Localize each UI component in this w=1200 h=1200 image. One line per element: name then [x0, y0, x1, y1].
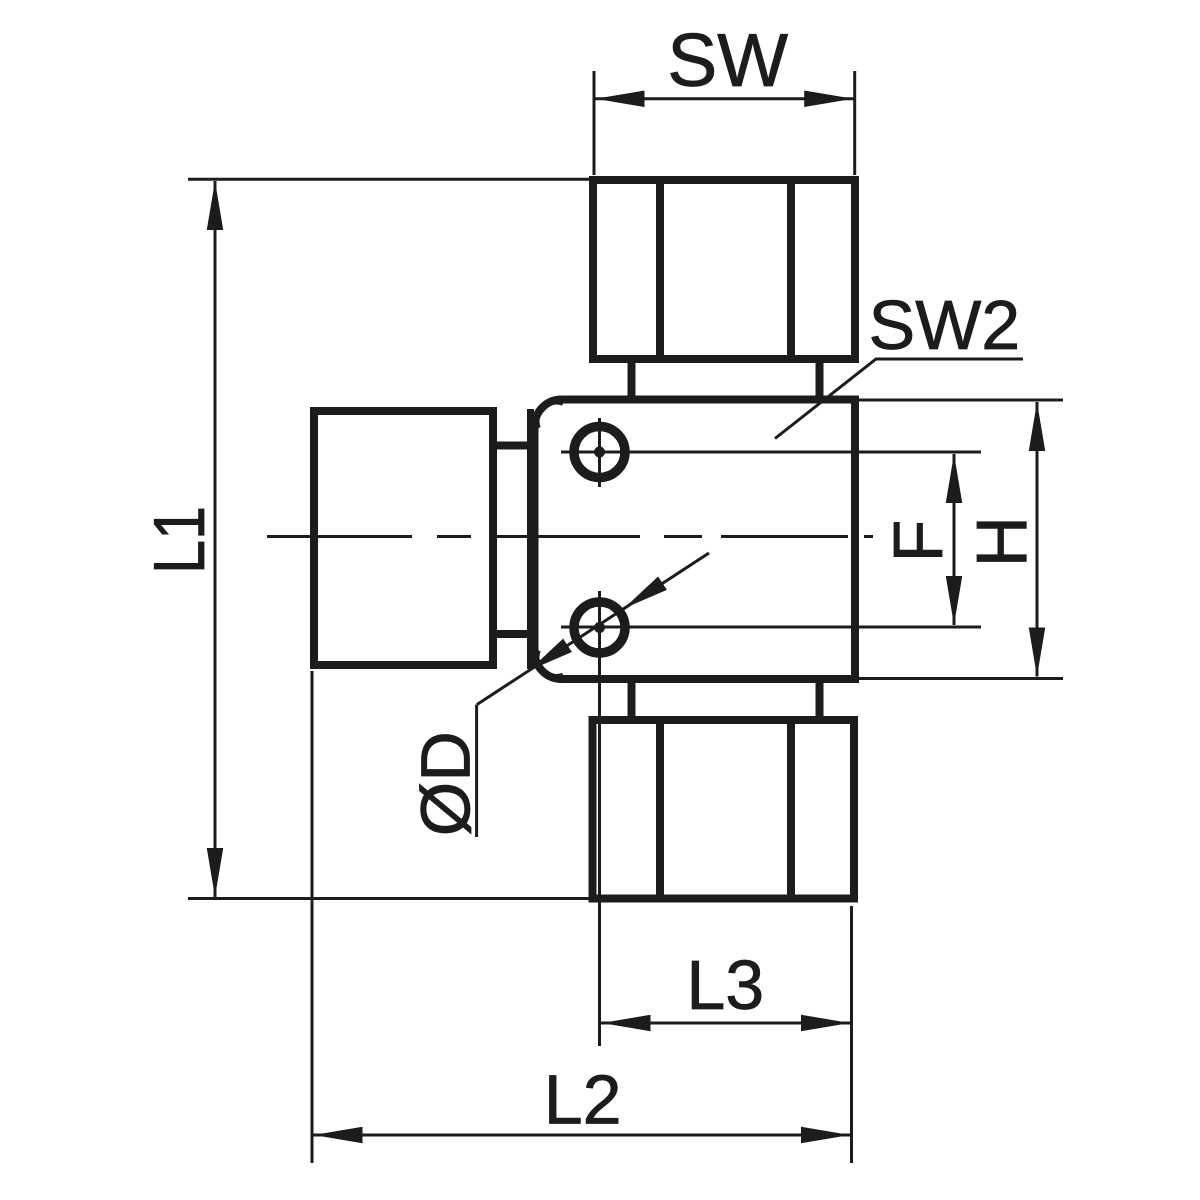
svg-text:SW2: SW2 — [869, 286, 1021, 364]
bottom neck left wire — [628, 679, 636, 720]
F extension line top / top circle crosshair — [561, 451, 981, 454]
svg-text:ØD: ØD — [407, 731, 485, 836]
F arrow bottom — [946, 576, 963, 625]
L2 arrow left — [314, 1127, 363, 1144]
hole circle bottom center dot — [594, 622, 605, 633]
hole circle top — [574, 427, 625, 478]
SW dimension extension lines — [593, 71, 596, 175]
L3 dimension line — [600, 1022, 852, 1025]
hole circle top center dot — [594, 447, 605, 458]
hole circle bottom — [574, 602, 625, 653]
bottom neck right wire — [816, 679, 824, 720]
L1 arrow bottom — [207, 848, 224, 897]
H arrow top — [1029, 402, 1046, 451]
L1 extension line bottom — [188, 897, 592, 900]
port neck top wire — [493, 442, 531, 450]
top nut hex facet line left — [656, 180, 664, 359]
L2 dimension line — [312, 1134, 852, 1137]
bottom nut hex facet line left — [656, 720, 664, 899]
bottom nut hex facet line right — [787, 720, 795, 899]
svg-text:F: F — [879, 520, 957, 563]
top neck right wire — [816, 359, 824, 400]
F extension line bottom / bottom circle crosshair — [561, 626, 981, 629]
top hex nut outline — [593, 180, 855, 359]
H extension line bottom — [859, 677, 1063, 680]
L2 extension line left — [311, 671, 314, 1163]
OD label underline — [475, 705, 478, 838]
SW2 leader line — [775, 359, 1023, 439]
SW dimension line — [594, 97, 855, 100]
OD arrow at circle — [624, 576, 667, 608]
H dimension line — [1036, 402, 1039, 677]
body inner corner arc top-left — [537, 402, 563, 428]
hole circle top vertical crosshair — [598, 418, 601, 487]
svg-text:L3: L3 — [686, 946, 764, 1024]
H extension line top — [859, 399, 1063, 402]
body port face line — [527, 409, 534, 669]
L3 arrow left — [602, 1015, 651, 1032]
horizontal center line (dash-dot) — [267, 535, 873, 538]
svg-text:SW: SW — [667, 18, 788, 102]
L1 extension line top — [188, 178, 593, 181]
L2 arrow right — [801, 1127, 850, 1144]
left port outline — [314, 411, 493, 665]
top nut hex facet line right — [787, 180, 795, 359]
svg-text:L2: L2 — [544, 1061, 622, 1139]
hole circle bottom vertical crosshair / L3 extension — [598, 591, 601, 1046]
L1 dimension line — [214, 181, 217, 897]
SW arrow left — [596, 91, 645, 108]
F arrow top — [946, 454, 963, 503]
F dimension line — [953, 454, 956, 625]
top neck left wire — [628, 359, 636, 400]
body outline (rounded left corners) — [535, 400, 856, 680]
body inner corner arc bottom-left — [537, 651, 563, 677]
OD arrow at corner — [529, 639, 572, 671]
SW arrow right — [804, 91, 853, 108]
OD leader line — [477, 553, 709, 705]
L3 extension line right — [850, 906, 853, 1163]
port neck bottom wire — [493, 630, 531, 638]
H arrow bottom — [1029, 628, 1046, 677]
L3 arrow right — [801, 1015, 850, 1032]
bottom hex nut outline — [593, 720, 855, 899]
svg-text:L1: L1 — [140, 506, 220, 574]
L1 arrow top — [207, 181, 224, 230]
svg-text:H: H — [964, 516, 1043, 567]
